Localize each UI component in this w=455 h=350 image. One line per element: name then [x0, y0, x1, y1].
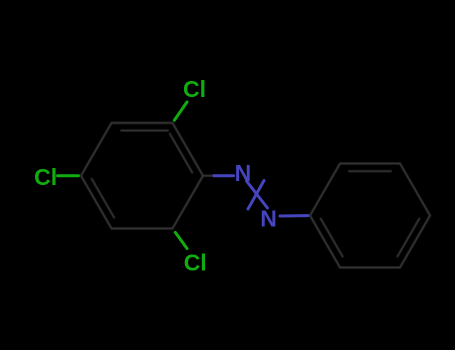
svg-text:Cl: Cl [183, 76, 206, 102]
svg-text:Cl: Cl [184, 249, 207, 275]
svg-text:Cl: Cl [34, 164, 57, 190]
svg-text:N: N [235, 160, 252, 186]
svg-text:N: N [260, 206, 277, 232]
